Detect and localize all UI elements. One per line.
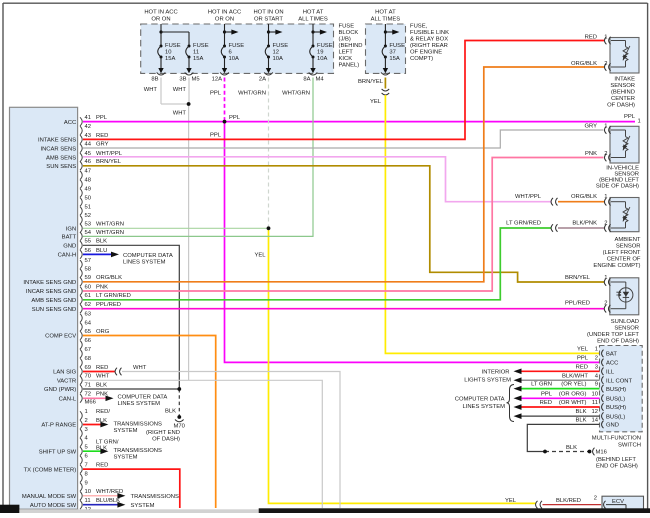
svg-text:BLK: BLK xyxy=(566,445,577,451)
fuse block (J/B) label xyxy=(339,24,363,69)
pin 65 xyxy=(80,329,110,340)
wire BLK pin 71 GND(PWR) xyxy=(83,388,179,390)
svg-text:BUS(L): BUS(L) xyxy=(606,397,625,403)
svg-text:(OR YEL): (OR YEL) xyxy=(561,382,586,388)
svg-text:2: 2 xyxy=(604,221,607,227)
svg-text:72: 72 xyxy=(85,392,92,398)
svg-text:2: 2 xyxy=(604,61,607,67)
pin 53 xyxy=(80,222,124,233)
svg-text:44: 44 xyxy=(85,142,92,148)
svg-text:FUSE: FUSE xyxy=(273,43,289,49)
multi-function switch pin 10 BUS(L) xyxy=(591,391,625,402)
svg-text:WHT: WHT xyxy=(96,374,110,380)
pin 5 wire color label LT GRN/BLK xyxy=(96,439,119,451)
svg-text:BLU: BLU xyxy=(96,248,107,254)
label PNK 2 (in-vehicle pin 2) xyxy=(585,151,608,157)
wire WHT from fuse 11 xyxy=(188,78,190,105)
svg-text:& RELAY BOX: & RELAY BOX xyxy=(410,37,448,43)
svg-text:BRN/YEL: BRN/YEL xyxy=(358,79,384,85)
label PPL right end xyxy=(624,114,641,125)
svg-text:14: 14 xyxy=(591,418,598,424)
label M16 (BEHIND LEFT END OF DASH) xyxy=(596,450,638,470)
svg-text:2: 2 xyxy=(85,418,88,424)
svg-text:TRANSMISSIONS: TRANSMISSIONS xyxy=(131,494,179,500)
svg-text:BLK: BLK xyxy=(96,239,107,245)
ECV box xyxy=(602,496,644,510)
svg-text:COMPT): COMPT) xyxy=(410,56,433,62)
junction BLK pin 71 xyxy=(178,387,181,390)
svg-text:59: 59 xyxy=(85,275,92,281)
svg-text:70: 70 xyxy=(85,374,92,380)
label computer data lines system (CAN-L) xyxy=(118,395,168,407)
svg-text:RED: RED xyxy=(96,365,108,371)
pin 45 xyxy=(80,151,123,162)
svg-text:2: 2 xyxy=(595,356,598,362)
wire RED ILL to interior lights xyxy=(514,369,600,375)
wire LT GRN BUS(H) xyxy=(514,386,600,392)
ground connector M16 xyxy=(588,448,595,456)
svg-text:47: 47 xyxy=(85,169,92,175)
junction PPL xyxy=(223,120,226,123)
multi-function switch pin 2 ACC xyxy=(595,356,619,367)
wire BLK/RED to ECV xyxy=(543,504,602,506)
svg-text:INTAKE SENS GND: INTAKE SENS GND xyxy=(23,280,76,286)
pin 6 (lower group) xyxy=(80,454,88,465)
svg-text:(UNDER TOP LEFT: (UNDER TOP LEFT xyxy=(587,332,639,338)
multi-function switch pin 3 ILL xyxy=(595,364,615,375)
label BLK (GND) xyxy=(575,418,586,424)
svg-text:WHT: WHT xyxy=(133,365,147,371)
multi-function switch pin 11 BUS(H) xyxy=(592,400,626,411)
svg-text:ILL: ILL xyxy=(606,370,615,376)
svg-text:6: 6 xyxy=(229,50,232,56)
svg-text:PNK: PNK xyxy=(585,151,597,157)
svg-text:60: 60 xyxy=(85,284,92,290)
multi-function switch pin 9 BUS(H) xyxy=(595,382,626,393)
svg-text:BLK: BLK xyxy=(96,382,107,388)
svg-text:FUSE: FUSE xyxy=(229,43,245,49)
power label feed F12 xyxy=(253,10,283,23)
splice on GND wire xyxy=(543,450,546,453)
svg-text:M66: M66 xyxy=(85,400,96,406)
svg-text:1: 1 xyxy=(604,34,607,40)
svg-text:ORG/BLK: ORG/BLK xyxy=(571,61,597,67)
svg-text:1: 1 xyxy=(85,409,88,415)
label interior lights system xyxy=(464,370,511,384)
svg-text:HOT IN ACC: HOT IN ACC xyxy=(208,10,241,16)
pin 12 (lower group) xyxy=(80,507,91,518)
multi-function switch box xyxy=(600,346,643,432)
pin 58 xyxy=(80,267,91,278)
wire WHT pin 69 to bottom xyxy=(122,372,340,509)
wire BLK dashed to M70 xyxy=(178,389,180,417)
svg-text:50: 50 xyxy=(85,195,92,201)
wire BRN/YEL from fuse 37 xyxy=(384,78,386,89)
svg-text:LINES SYSTEM: LINES SYSTEM xyxy=(462,404,505,410)
pin 63 xyxy=(80,311,91,322)
label RED 1 (intake pin 1) xyxy=(585,34,608,40)
multi-function switch pin 1 BAT xyxy=(595,347,618,358)
wire PPL pin 41 horizontal xyxy=(83,121,635,123)
svg-text:PANEL): PANEL) xyxy=(339,63,360,69)
svg-text:10A: 10A xyxy=(317,56,328,62)
fuse 12 10A xyxy=(264,24,288,75)
label PPL after junction xyxy=(229,115,241,121)
svg-text:BRN/YEL: BRN/YEL xyxy=(96,159,122,165)
svg-text:M70: M70 xyxy=(174,424,186,430)
label 2 (ECV pin) xyxy=(594,496,597,502)
svg-text:ILL CONT: ILL CONT xyxy=(606,378,633,384)
svg-text:CAN-H: CAN-H xyxy=(58,253,77,259)
svg-text:BUS(H): BUS(H) xyxy=(606,405,626,411)
label YEL fuse 37 xyxy=(370,99,382,105)
svg-text:(BEHIND: (BEHIND xyxy=(611,89,635,95)
pin 59 xyxy=(80,275,122,286)
svg-text:WHT/GRN: WHT/GRN xyxy=(282,91,310,97)
label ORG/BLK 2 (intake pin 2) xyxy=(571,61,607,67)
svg-text:HOT IN ACC: HOT IN ACC xyxy=(144,10,177,16)
wire ORG/BLK to ambient sensor pin 1 xyxy=(558,201,604,203)
connector function labels xyxy=(22,120,77,509)
fuse 10 15A xyxy=(157,24,181,75)
ground splice M70 xyxy=(175,415,184,421)
wire BLU/BLK pin 11 AUTO MODE SW xyxy=(83,502,125,508)
svg-text:8B: 8B xyxy=(151,77,158,83)
svg-text:2: 2 xyxy=(594,496,597,502)
label WHT pin 69 xyxy=(133,365,147,371)
svg-text:AMBIENT: AMBIENT xyxy=(615,237,641,243)
label PPL (ACC) xyxy=(577,356,589,362)
svg-text:BRN/YEL: BRN/YEL xyxy=(565,275,591,281)
wire PNK pin 72 CAN-L xyxy=(83,396,114,402)
svg-text:11: 11 xyxy=(85,498,91,504)
svg-text:LT GRN/: LT GRN/ xyxy=(96,439,119,445)
svg-text:SENSOR: SENSOR xyxy=(616,244,641,250)
svg-text:COMPUTER DATA: COMPUTER DATA xyxy=(455,397,505,403)
wire LT GRN/BLK pin 5 SHIFT UP SW xyxy=(83,448,108,454)
svg-text:ORG: ORG xyxy=(96,329,110,335)
wire PPL/RED pin 62 to sunload sensor pin 2 xyxy=(83,308,604,310)
svg-text:GRY: GRY xyxy=(584,124,597,130)
svg-text:LINES SYSTEM: LINES SYSTEM xyxy=(123,260,166,266)
svg-text:1: 1 xyxy=(604,124,607,130)
label BLK/RED xyxy=(556,498,581,504)
ambient sensor xyxy=(604,198,639,232)
svg-text:ACC: ACC xyxy=(64,120,76,126)
svg-text:BLK: BLK xyxy=(165,408,176,414)
label GRY 1 (in-vehicle pin 1) xyxy=(584,124,607,130)
svg-text:37: 37 xyxy=(389,50,396,56)
svg-text:PPL: PPL xyxy=(229,115,241,121)
svg-text:3B: 3B xyxy=(179,77,186,83)
svg-text:51: 51 xyxy=(85,204,92,210)
pin 67 xyxy=(80,347,91,358)
bottom edge bars xyxy=(0,505,650,513)
wire RED pin 69 LAN SIG xyxy=(83,371,115,373)
wire BLU pin 56 CAN-H xyxy=(83,252,119,258)
svg-text:49: 49 xyxy=(85,186,92,192)
wire PPL BUS(L) xyxy=(514,396,600,402)
svg-text:55: 55 xyxy=(85,239,92,245)
svg-text:HOT AT: HOT AT xyxy=(375,10,396,16)
multi-function switch pin 12 BUS(L) xyxy=(591,409,625,420)
label transmissions system (pin2) xyxy=(114,421,162,434)
svg-text:FUSIBLE LINK: FUSIBLE LINK xyxy=(410,30,449,36)
power label feed F19 xyxy=(298,10,328,23)
svg-text:LAN SIG: LAN SIG xyxy=(53,370,77,376)
svg-text:WHT: WHT xyxy=(173,111,187,117)
pin 68 xyxy=(80,356,91,367)
wire WHT/GRN from fuse 19 to pin 54 xyxy=(83,78,313,237)
pin 57 xyxy=(80,258,91,269)
svg-text:YEL: YEL xyxy=(577,347,589,353)
pin 70 xyxy=(80,374,110,385)
wire BLK/WHT ILL CONT to interior lights xyxy=(514,377,600,383)
connector M66 label xyxy=(85,400,96,406)
svg-text:ORG/BLK: ORG/BLK xyxy=(96,275,122,281)
wire BLK pin 55 down xyxy=(83,245,179,389)
svg-text:TRANSMISSIONS: TRANSMISSIONS xyxy=(114,448,162,454)
power label feed F37 xyxy=(371,10,401,23)
connector fuse 37 wire xyxy=(382,89,390,95)
svg-text:COMP ECV: COMP ECV xyxy=(45,334,76,340)
svg-text:56: 56 xyxy=(85,248,92,254)
svg-text:BATT: BATT xyxy=(62,235,77,241)
label transmissions system (pins 10/11) xyxy=(131,494,179,509)
svg-text:PPL/RED: PPL/RED xyxy=(565,301,590,307)
svg-text:PPL: PPL xyxy=(96,115,108,121)
svg-text:RED: RED xyxy=(540,400,552,406)
svg-text:ALL TIMES: ALL TIMES xyxy=(371,16,401,22)
svg-text:3: 3 xyxy=(85,427,88,433)
svg-text:AUTO MODE SW: AUTO MODE SW xyxy=(30,503,77,509)
power label feed F10/F11 xyxy=(144,10,177,23)
A/C auto amp connector box xyxy=(10,107,78,509)
label BLK M70 xyxy=(165,408,176,414)
pin 55 xyxy=(80,239,107,250)
brace computer data lines xyxy=(507,385,515,422)
svg-text:HOT AT: HOT AT xyxy=(303,10,324,16)
power label feed F6 xyxy=(208,10,241,23)
svg-text:(LEFT FRONT: (LEFT FRONT xyxy=(603,250,641,256)
wire WHT/GRN pin 53 IGN xyxy=(83,227,269,229)
label PPL fuse 6 xyxy=(210,91,222,97)
multi-function switch pin 14 GND xyxy=(591,418,619,429)
svg-text:HOT IN ON: HOT IN ON xyxy=(253,10,283,16)
svg-text:BLK/PNK: BLK/PNK xyxy=(572,221,597,227)
pin 3 (lower group) xyxy=(80,427,88,438)
pin 7 (lower group) xyxy=(80,463,108,474)
svg-text:INTAKE SENS: INTAKE SENS xyxy=(38,138,76,144)
svg-text:WHT/GRN: WHT/GRN xyxy=(238,91,266,97)
svg-text:ECV: ECV xyxy=(612,499,624,505)
svg-text:BLK/RED: BLK/RED xyxy=(556,498,581,504)
svg-text:15A: 15A xyxy=(193,56,204,62)
svg-text:12: 12 xyxy=(273,50,280,56)
svg-text:WHT/GRN: WHT/GRN xyxy=(96,230,124,236)
label BLK (M16 wire) xyxy=(566,445,577,451)
label PPL (OR ORG) xyxy=(541,391,587,397)
wire WHT/GRN dashed from fuse 12 xyxy=(268,78,270,229)
svg-text:SUN SENS: SUN SENS xyxy=(46,164,76,170)
label LT GRN/RED (ambient pin 2 wire) xyxy=(506,221,541,227)
label WHT/GRN fuse 12 xyxy=(238,91,266,97)
svg-text:68: 68 xyxy=(85,356,92,362)
svg-text:IGN: IGN xyxy=(66,227,76,233)
svg-text:FUSE: FUSE xyxy=(339,24,355,30)
svg-text:MANUAL MODE SW: MANUAL MODE SW xyxy=(22,494,77,500)
junction dots overlay xyxy=(177,102,591,453)
svg-text:M16: M16 xyxy=(596,450,607,456)
svg-text:SUNLOAD: SUNLOAD xyxy=(611,319,639,325)
pin 64 xyxy=(80,320,92,331)
label PPL/RED 2 (sunload pin 2) xyxy=(565,301,608,307)
label ORG/BLK 1 (ambient pin 1) xyxy=(571,194,607,200)
svg-text:PPL: PPL xyxy=(624,114,636,120)
pin 1 (lower group) xyxy=(80,409,110,420)
pin 41 xyxy=(80,115,108,126)
svg-text:GND (PWR): GND (PWR) xyxy=(44,387,76,393)
svg-text:LINES SYSTEM: LINES SYSTEM xyxy=(118,401,161,407)
svg-text:WHT: WHT xyxy=(173,87,187,93)
fuse 6 10A xyxy=(220,24,244,75)
multi-function switch caption xyxy=(592,435,641,448)
svg-text:5: 5 xyxy=(85,445,88,451)
svg-text:WHT/GRN: WHT/GRN xyxy=(96,222,124,228)
svg-text:RED/: RED/ xyxy=(96,409,110,415)
svg-text:41: 41 xyxy=(85,115,92,121)
svg-text:BLK: BLK xyxy=(575,418,586,424)
svg-text:TX (COMB METER): TX (COMB METER) xyxy=(24,467,77,473)
svg-text:(BEHIND LEFT: (BEHIND LEFT xyxy=(596,457,636,463)
svg-text:58: 58 xyxy=(85,267,92,273)
svg-text:46: 46 xyxy=(85,159,92,165)
svg-text:OF ENGINE: OF ENGINE xyxy=(410,50,442,56)
svg-text:10A: 10A xyxy=(273,56,284,62)
svg-text:10: 10 xyxy=(591,391,598,397)
svg-text:INCAR SENS GND: INCAR SENS GND xyxy=(26,289,76,295)
label YEL (BAT) xyxy=(577,347,589,353)
svg-text:(RIGHT END: (RIGHT END xyxy=(146,430,180,436)
svg-text:(OR ORG): (OR ORG) xyxy=(559,391,587,397)
svg-text:8: 8 xyxy=(85,471,88,477)
label transmissions system (pin5) xyxy=(114,448,162,461)
multi-function switch pin 4 ILL CONT xyxy=(595,373,633,384)
pin 5 (lower group) xyxy=(80,445,88,456)
junction IGN/YEL xyxy=(267,227,270,230)
svg-text:AMB SENS GND: AMB SENS GND xyxy=(31,298,76,304)
svg-text:61: 61 xyxy=(85,293,92,299)
svg-text:BLOCK: BLOCK xyxy=(339,30,359,36)
fuse 11 15A xyxy=(185,43,209,75)
svg-text:2: 2 xyxy=(604,151,607,157)
svg-text:YEL: YEL xyxy=(505,498,517,504)
svg-text:FUSE,: FUSE, xyxy=(410,24,428,30)
svg-text:M4: M4 xyxy=(316,77,325,83)
svg-text:BLK/WHT: BLK/WHT xyxy=(562,373,588,379)
pin 4 (lower group) xyxy=(80,436,89,447)
svg-text:TRANSMISSIONS: TRANSMISSIONS xyxy=(114,421,162,427)
label BLK/PNK 2 (ambient pin 2) xyxy=(572,221,607,227)
svg-text:OR ON: OR ON xyxy=(215,16,234,22)
pin 42 xyxy=(80,124,91,135)
svg-text:BAT: BAT xyxy=(606,352,617,358)
svg-text:ORG/BLK: ORG/BLK xyxy=(571,194,597,200)
svg-text:FUSE: FUSE xyxy=(165,43,181,49)
fuse/fusible link box label xyxy=(410,24,449,63)
connector WHT/PPL to ORG/BLK xyxy=(551,198,557,206)
wire RED BUS(H) xyxy=(514,404,600,410)
wire BLK GND to M16 xyxy=(527,424,599,451)
label WHT below junction xyxy=(173,111,187,117)
wire BLK BUS(L) xyxy=(514,413,600,419)
ambient sensor caption xyxy=(593,237,641,269)
fuse, fusible link and relay box xyxy=(366,24,406,73)
intake sensor caption xyxy=(607,76,635,108)
svg-text:COMPUTER DATA: COMPUTER DATA xyxy=(118,395,168,401)
label BRN/YEL 1 (sunload pin 1) xyxy=(565,275,608,281)
svg-text:67: 67 xyxy=(85,347,92,353)
svg-text:OR ON: OR ON xyxy=(151,16,170,22)
label computer data lines system (mf) xyxy=(455,397,505,411)
svg-text:AT-P RANGE: AT-P RANGE xyxy=(41,423,76,429)
svg-text:RED: RED xyxy=(96,133,108,139)
pin 50 xyxy=(80,195,92,206)
svg-text:11: 11 xyxy=(193,50,199,56)
in-vehicle sensor xyxy=(604,126,639,163)
svg-text:M5: M5 xyxy=(192,77,200,83)
label RED (ILL) xyxy=(576,364,588,370)
svg-text:LT GRN: LT GRN xyxy=(531,382,552,388)
svg-text:(OR WHT): (OR WHT) xyxy=(559,400,587,406)
svg-text:PPL: PPL xyxy=(577,356,589,362)
connector pin 69 xyxy=(115,368,121,376)
svg-text:RED: RED xyxy=(96,463,108,469)
svg-text:RED: RED xyxy=(585,34,597,40)
svg-text:10: 10 xyxy=(85,489,92,495)
svg-text:COMPUTER DATA: COMPUTER DATA xyxy=(123,253,173,259)
svg-text:OF DASH): OF DASH) xyxy=(607,102,635,108)
svg-text:YEL: YEL xyxy=(370,99,382,105)
junction WHT fuses xyxy=(187,102,190,105)
label WHT fuse10 xyxy=(144,87,158,93)
svg-text:2A: 2A xyxy=(259,77,266,83)
pin 69 xyxy=(80,365,108,376)
fuse 37 15A xyxy=(381,24,405,75)
svg-text:9: 9 xyxy=(85,480,88,486)
pin 44 xyxy=(80,142,109,153)
svg-text:INTAKE: INTAKE xyxy=(614,76,635,82)
svg-text:BUS(H): BUS(H) xyxy=(606,387,626,393)
in-vehicle sensor caption xyxy=(596,165,640,189)
wire WHT pin 70 VACTR to bottom xyxy=(83,380,322,508)
label PPL below junction xyxy=(210,133,222,139)
svg-text:57: 57 xyxy=(85,258,92,264)
pin 11 (lower group) xyxy=(80,498,120,509)
svg-text:8A: 8A xyxy=(303,77,310,83)
svg-text:BUS(L): BUS(L) xyxy=(606,414,625,420)
intake sensor xyxy=(604,37,639,73)
wire YEL fuse 37 down to BAT xyxy=(385,95,599,353)
svg-text:LEFT: LEFT xyxy=(339,50,354,56)
wire BLK dashed to M16 xyxy=(545,451,588,453)
wire WHT down to pin 70 xyxy=(188,104,190,380)
label BLK/WHT (ILL CONT) xyxy=(562,373,588,379)
svg-text:SUN SENS GND: SUN SENS GND xyxy=(32,307,77,313)
svg-text:(J/B): (J/B) xyxy=(339,37,351,43)
label YEL xyxy=(254,252,266,258)
wire RED pin 7 TX xyxy=(83,469,180,508)
